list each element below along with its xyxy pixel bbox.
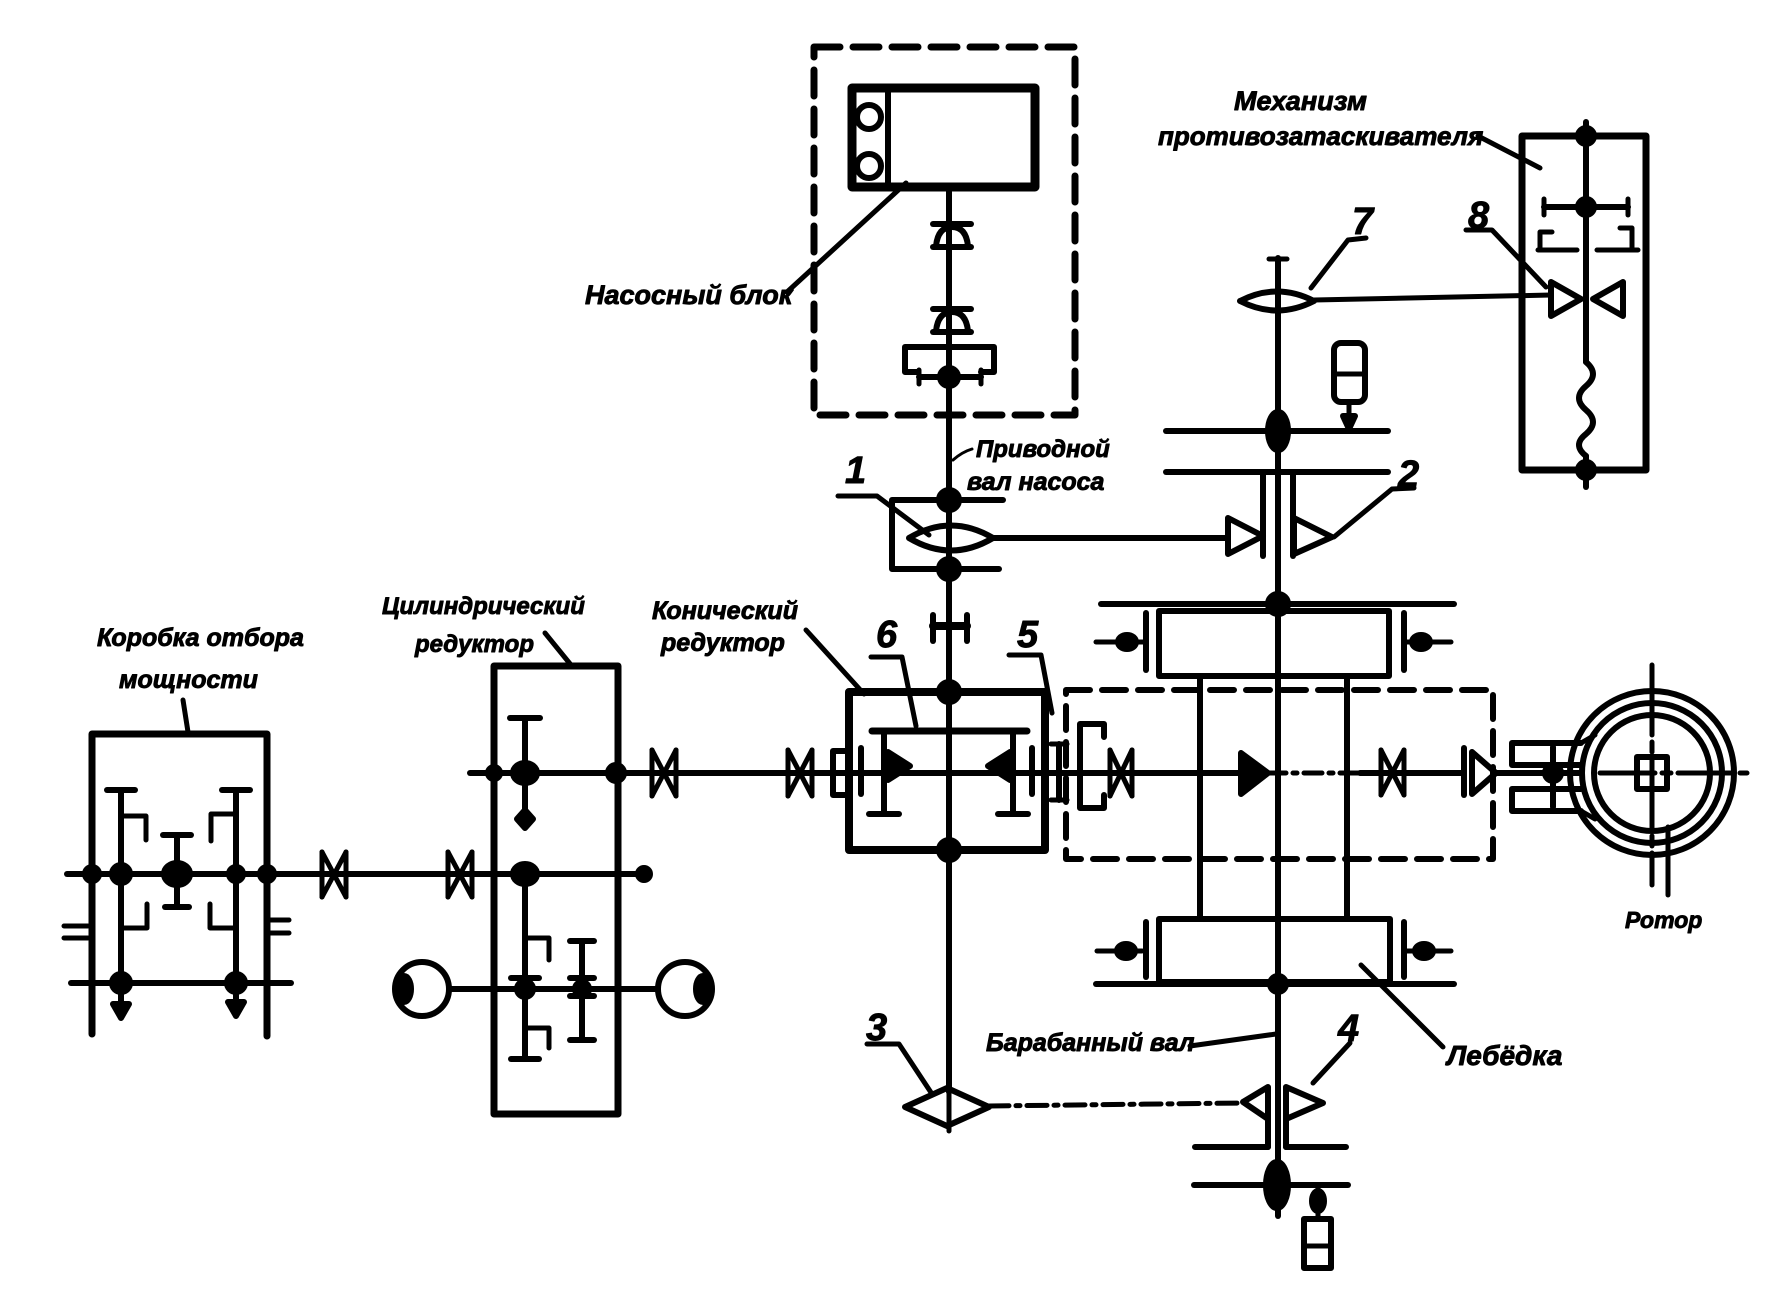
PTO center gear: [163, 835, 191, 907]
PTO shift step lower right: [210, 904, 233, 928]
drawworks dashed enclosure: [1066, 690, 1493, 859]
gear2 bracket right leg: [1290, 472, 1296, 556]
dash-dot line gear3 to gear4: [989, 1103, 1243, 1106]
conical reducer right gear: [988, 731, 1028, 814]
pump housing divider: [885, 92, 891, 183]
bevel gear pair 4 right triangle: [1286, 1087, 1323, 1119]
node bottom shaft crossings: [517, 981, 533, 997]
leader winch label: [1361, 965, 1443, 1047]
leader numeral 2: [1334, 488, 1414, 537]
conical reducer right bearing: [1029, 748, 1035, 794]
bevel gear pair 2 right triangle: [1294, 518, 1332, 554]
node junction on bracket top: [939, 490, 959, 510]
main horizontal shaft left section: [470, 770, 1241, 776]
anti-pullup shaft lower stub: [1583, 456, 1589, 487]
svg-text:4: 4: [1337, 1008, 1359, 1050]
lower drum brake bar left: [1143, 922, 1149, 977]
power take-off upper shaft: [67, 871, 644, 877]
pump circle upper: [857, 105, 881, 129]
node shaft at box bottom: [939, 840, 959, 860]
leader anti-pullup label: [1478, 136, 1540, 168]
bevel gear pair 2 left triangle: [1228, 518, 1263, 554]
conical reducer left bearing: [858, 748, 864, 794]
lower drum bottom rail: [1096, 981, 1454, 987]
coupling X left of cylindrical reducer pair B: [448, 852, 472, 897]
svg-text:редуктор: редуктор: [660, 629, 785, 657]
drum shaft vertical: [1275, 258, 1281, 1216]
weight hanger knob: [1312, 1191, 1324, 1211]
gear2 bracket left leg: [1260, 472, 1266, 556]
leader numeral 5: [1009, 655, 1052, 713]
shaft end node: [638, 868, 650, 880]
C bracket clutch in drawworks: [1080, 724, 1104, 808]
svg-text:Ротор: Ротор: [1625, 907, 1702, 933]
main shaft dash-dot section: [1268, 771, 1360, 776]
PTO gear line right: [222, 790, 250, 1016]
upper drum brake arrow right: [1404, 635, 1451, 649]
leader pump block label: [787, 183, 906, 292]
pump housing rectangle: [852, 88, 1035, 187]
node PTO shaft crossings: [112, 865, 130, 883]
PTO outer step right: [266, 920, 289, 933]
gear3 shaft stub: [947, 1092, 952, 1131]
svg-text:Конический: Конический: [652, 597, 798, 625]
gear4 bracket legs: [1268, 1119, 1286, 1147]
PTO gear line left: [107, 790, 135, 1018]
upper drum brake bar right: [1401, 613, 1407, 670]
rotor ring middle: [1582, 703, 1722, 843]
weight block: [1304, 1219, 1331, 1268]
svg-text:7: 7: [1352, 201, 1375, 243]
cathead line lower: [1166, 469, 1388, 475]
rotor ring inner: [1594, 715, 1710, 831]
rotor center square: [1637, 757, 1667, 789]
svg-text:2: 2: [1397, 454, 1419, 496]
coupling X in drawworks: [1110, 750, 1132, 796]
leader numeral 7: [1311, 238, 1366, 288]
rotor crosshair vertical: [1650, 665, 1655, 885]
node fork on shaft: [1545, 765, 1561, 781]
motor circle right inner mark: [696, 976, 710, 1002]
cylindrical reducer housing: [494, 666, 618, 1114]
clutch bracket in pump block: [905, 347, 994, 372]
motor circle right: [658, 962, 712, 1016]
conical reducer left gear: [869, 731, 910, 814]
rotor crosshair horizontal: [1600, 771, 1747, 776]
svg-text:Насосный блок: Насосный блок: [585, 280, 794, 310]
leader numeral 8: [1466, 230, 1546, 287]
svg-text:Цилиндрический: Цилиндрический: [382, 593, 585, 620]
cone clutch filled in drawworks: [1241, 753, 1268, 794]
svg-text:8: 8: [1468, 195, 1490, 237]
gear on pump shaft upper: [933, 224, 971, 247]
lower drum body: [1159, 919, 1390, 982]
conical reducer housing: [849, 692, 1045, 850]
lower drum brake arrow right: [1404, 944, 1451, 958]
upper drum brake arrow left: [1096, 635, 1144, 649]
cone coupling at drawworks right: [1464, 748, 1496, 795]
coupling X on upper shaft pair B: [788, 750, 812, 796]
svg-text:3: 3: [866, 1007, 887, 1049]
pump block dashed enclosure: [814, 47, 1075, 415]
wire gear7 to gear8: [1314, 295, 1551, 300]
svg-text:5: 5: [1017, 614, 1039, 656]
rotor ring outer: [1570, 691, 1734, 855]
bearing bracket left of conical reducer: [833, 751, 845, 795]
anti-pullup spring wavy: [1579, 362, 1593, 456]
node middle shaft crossing: [513, 864, 537, 884]
anti-pullup step right: [1597, 228, 1638, 250]
pump circle lower: [857, 154, 881, 178]
upper drum top rail: [1101, 601, 1454, 607]
power take-off box: [92, 734, 267, 1036]
anti-pullup cross gear: [1544, 199, 1628, 215]
svg-text:мощности: мощности: [119, 666, 258, 694]
node drum shaft at bottom rail: [1270, 976, 1286, 992]
cyl reducer middle gear line: [511, 869, 549, 1059]
cathead line upper: [1166, 428, 1388, 434]
rotor fork upper prong: [1512, 743, 1581, 765]
svg-text:Приводной: Приводной: [976, 436, 1110, 463]
PTO shift step lower left: [124, 904, 147, 928]
drum shaft top tick: [1269, 257, 1287, 262]
shaft to rotor fork: [1496, 770, 1581, 776]
lower drum brake bar right: [1401, 922, 1407, 977]
svg-text:Коробка отбора: Коробка отбора: [97, 624, 304, 652]
svg-text:1: 1: [845, 450, 866, 492]
svg-text:Лебёдка: Лебёдка: [1445, 1040, 1562, 1071]
crown block line A: [1195, 1144, 1346, 1150]
anti-pullup step left: [1538, 232, 1577, 250]
svg-text:противозатаскивателя: противозатаскивателя: [1158, 121, 1483, 151]
svg-text:6: 6: [876, 614, 898, 656]
clutch cross in pump block: [919, 368, 981, 386]
coupling X on upper shaft pair A: [652, 750, 676, 796]
coupling on pump shaft above conical reducer: [933, 615, 967, 641]
vertical drum support line right: [1344, 676, 1350, 919]
bearing I-bar after conical reducer: [1051, 744, 1067, 800]
bevel gear 1 bracket: [892, 500, 1003, 569]
anti-pullup vertical shaft: [1583, 122, 1589, 362]
cyl reducer small gear I-bars: [570, 941, 594, 1040]
node shaft at box top: [939, 682, 959, 702]
node on drum shaft at upper line: [1268, 412, 1288, 450]
lower drum brake arrow left: [1097, 944, 1142, 958]
leader cylindrical reducer label: [545, 633, 571, 665]
node top shaft crossings: [513, 763, 537, 783]
rotor fork lower prong: [1512, 789, 1581, 811]
coupling X left of cylindrical reducer pair A: [322, 852, 346, 897]
leader pump drive shaft label: [953, 449, 972, 460]
upper drum body: [1159, 611, 1389, 676]
weight hanger line: [1316, 1185, 1321, 1219]
motor circle left: [395, 962, 449, 1016]
node shaft at housing bottom: [1578, 462, 1594, 478]
node shaft at housing top: [1578, 128, 1594, 144]
leader drum shaft label: [1190, 1034, 1276, 1046]
motor circle left inner mark: [397, 976, 411, 1002]
coupling X right in drawworks: [1381, 750, 1404, 795]
conical reducer inner gear bar: [872, 728, 1027, 735]
bevel gear pair 1 lens: [909, 526, 993, 551]
PTO shift step upper left: [121, 816, 146, 840]
pump drive vertical shaft: [946, 187, 952, 1092]
upper drum brake bar left: [1143, 613, 1149, 670]
bevel gear pair 3 rhombus: [905, 1088, 989, 1126]
leader numeral 4: [1313, 1043, 1350, 1083]
leader numeral 1: [838, 496, 929, 535]
svg-text:Механизм: Механизм: [1234, 86, 1367, 116]
bevel gear pair 8 left triangle: [1551, 282, 1581, 316]
anti-pullup mechanism housing: [1522, 136, 1646, 470]
crown block line B: [1194, 1182, 1348, 1188]
bevel gear pair 7 lens: [1240, 292, 1314, 311]
node spindle on drum shaft: [1266, 1162, 1288, 1208]
rotor fork bar: [1550, 747, 1556, 807]
hydraulic cylinder symbol: [1334, 343, 1365, 429]
svg-text:Барабанный вал: Барабанный вал: [986, 1029, 1195, 1057]
cyl reducer top gear line: [510, 718, 540, 828]
node junction on bracket bottom: [939, 559, 959, 579]
motor shaft bottom: [449, 986, 658, 992]
vertical drum support line left: [1197, 676, 1203, 919]
svg-text:редуктор: редуктор: [414, 631, 534, 658]
gear on pump shaft lower: [933, 309, 971, 332]
bevel gear pair 8 right triangle: [1593, 282, 1623, 316]
leader PTO label: [183, 700, 188, 732]
leader numeral 3: [867, 1044, 932, 1094]
PTO shift step upper right: [211, 814, 236, 841]
bevel gear pair 4 left triangle: [1243, 1087, 1268, 1119]
svg-text:вал насоса: вал насоса: [967, 468, 1105, 496]
node drum shaft at top rail: [1268, 594, 1288, 614]
main shaft right section: [1360, 770, 1464, 776]
rotor aux vertical mark: [1666, 827, 1671, 895]
power take-off lower shaft: [71, 980, 291, 986]
leader numeral 6: [871, 657, 916, 726]
leader conical reducer label: [806, 630, 864, 694]
PTO outer step left: [64, 926, 88, 938]
wire gear1 to gear2: [993, 535, 1228, 541]
rotor fork flare: [1581, 735, 1595, 819]
